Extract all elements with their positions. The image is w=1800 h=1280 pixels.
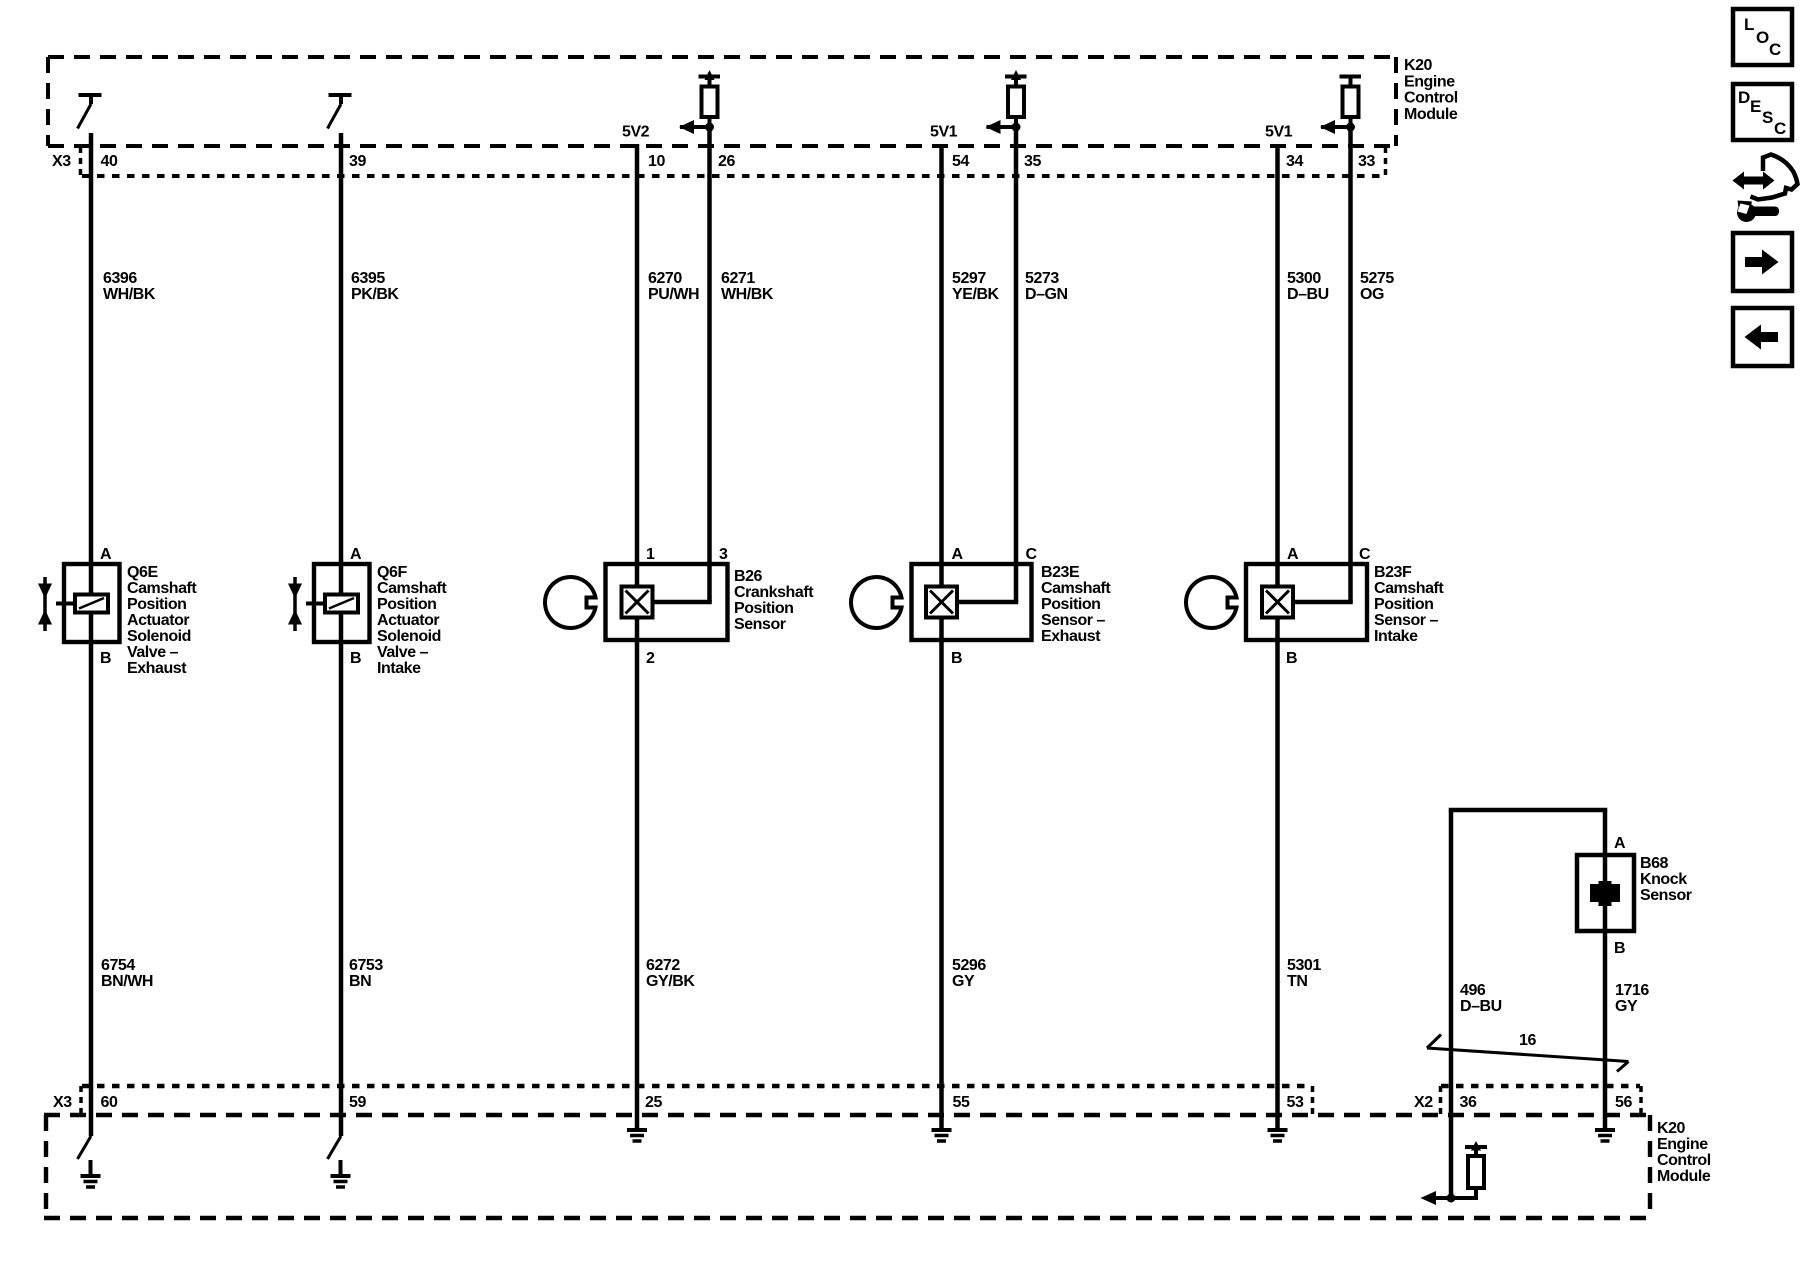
wire label 6754 BN/WH: [101, 957, 153, 990]
svg-text:34: 34: [1286, 153, 1303, 170]
wire 6271 WH/BK (pin 26 to B26 pin 3): [707, 129, 712, 602]
svg-text:S: S: [1762, 108, 1773, 127]
knock sensor B68 element: [1592, 883, 1618, 904]
svg-text:X3: X3: [52, 153, 71, 170]
svg-text:A: A: [1287, 546, 1299, 563]
svg-text:Position: Position: [377, 596, 437, 613]
svg-text:Actuator: Actuator: [127, 612, 189, 629]
svg-text:5V1: 5V1: [1265, 124, 1293, 141]
svg-text:5300: 5300: [1287, 270, 1321, 287]
svg-text:6754: 6754: [101, 957, 135, 974]
svg-text:Control: Control: [1657, 1152, 1711, 1169]
svg-text:3: 3: [719, 546, 728, 563]
svg-text:Camshaft: Camshaft: [1374, 580, 1444, 597]
svg-text:B: B: [951, 650, 962, 667]
X3 bottom separator left: [79, 1086, 83, 1115]
sensor B23F reluctor wheel: [1186, 577, 1237, 628]
svg-text:Knock: Knock: [1640, 871, 1687, 888]
svg-text:Camshaft: Camshaft: [377, 580, 447, 597]
sensor B23E box: [912, 564, 1032, 640]
label B68 Knock Sensor: [1640, 855, 1692, 904]
wire 5275 OG (pin 33 to B23F C): [1348, 129, 1353, 602]
wire label 6270 PU/WH: [648, 270, 699, 303]
icon back arrow box: [1733, 308, 1792, 366]
svg-text:Sensor –: Sensor –: [1041, 612, 1106, 629]
svg-text:BN: BN: [349, 973, 371, 990]
svg-text:C: C: [1359, 546, 1371, 563]
svg-text:Sensor –: Sensor –: [1374, 612, 1439, 629]
svg-text:60: 60: [101, 1094, 118, 1111]
wire label 5273 D-GN: [1025, 270, 1068, 303]
sensor B23F sense element: [1262, 587, 1293, 618]
svg-text:5296: 5296: [952, 957, 986, 974]
svg-text:53: 53: [1287, 1094, 1304, 1111]
wire label 6395 PK/BK: [351, 270, 399, 303]
wire 496 D-BU (to X2 pin 36): [1449, 810, 1454, 1198]
svg-text:BN/WH: BN/WH: [101, 973, 153, 990]
svg-text:54: 54: [952, 153, 969, 170]
svg-text:B: B: [100, 650, 111, 667]
svg-text:Intake: Intake: [1374, 628, 1418, 645]
X2 separator left: [1439, 1086, 1443, 1115]
sensor B23E sense element: [926, 587, 957, 618]
wire 5273 D-GN (pin 35 to B23E C): [1014, 129, 1019, 602]
wire label 6396 WH/BK: [103, 270, 156, 303]
wire 6395 PK/BK (circuit 39 to Q6F A): [339, 133, 344, 595]
wire label 6272 GY/BK: [646, 957, 695, 990]
X3 bottom separator right: [1311, 1086, 1315, 1115]
wire label 5296 GY: [952, 957, 986, 990]
wire label 5300 D-BU: [1287, 270, 1329, 303]
svg-text:B23F: B23F: [1374, 564, 1412, 581]
sensor B26 sense element: [622, 587, 653, 618]
wire 6270 PU/WH (5V2 pin 10 to B26 pin 1): [635, 144, 640, 587]
solenoid Q6F box: [295, 564, 370, 642]
arrow to circuit continuation (ECM internal): [1421, 1191, 1437, 1205]
sensor B26 box: [606, 564, 728, 640]
svg-text:K20: K20: [1404, 57, 1433, 74]
svg-text:6271: 6271: [721, 270, 755, 287]
svg-text:A: A: [350, 546, 362, 563]
svg-text:PK/BK: PK/BK: [351, 286, 399, 303]
wire 5300 D-BU (5V1 pin 34 to B23F A): [1275, 144, 1280, 587]
label B23E Camshaft Position Sensor - Exhaust: [1041, 564, 1111, 645]
icon hotlink (double arrow, outline, wrench): [1733, 155, 1798, 223]
icon DESC box: [1733, 84, 1792, 140]
label Q6E Camshaft Position Actuator Solenoid Valve - Exhaust: [127, 564, 197, 677]
wire B68 B to X2 pin 56: [1603, 906, 1608, 1128]
svg-text:39: 39: [349, 153, 366, 170]
svg-text:C: C: [1774, 119, 1786, 138]
wire B26 pin 2 to pin 25 (6272): [635, 618, 640, 1129]
svg-text:TN: TN: [1287, 973, 1307, 990]
svg-text:Module: Module: [1657, 1168, 1711, 1185]
svg-text:D: D: [1738, 88, 1750, 107]
svg-text:A: A: [952, 546, 964, 563]
svg-text:GY/BK: GY/BK: [646, 973, 695, 990]
wire label 1716 GY: [1615, 982, 1649, 1015]
X2 connector dotted line: [1441, 1084, 1640, 1088]
X3 top connector separator right: [1384, 147, 1388, 176]
svg-text:X2: X2: [1414, 1094, 1433, 1111]
svg-text:Exhaust: Exhaust: [1041, 628, 1101, 645]
svg-text:Valve –: Valve –: [127, 644, 179, 661]
label B26 Crankshaft Position Sensor: [734, 568, 814, 633]
wire jog inside B23E to sense element: [957, 600, 1018, 605]
svg-text:Valve –: Valve –: [377, 644, 429, 661]
wire Q6E B to pin 60 (6754): [89, 613, 94, 1137]
svg-text:6395: 6395: [351, 270, 385, 287]
svg-text:10: 10: [648, 153, 665, 170]
ECM driver switch pin 59: [328, 1136, 342, 1159]
svg-text:56: 56: [1615, 1094, 1632, 1111]
ground (ECM internal, pin 59): [331, 1160, 351, 1187]
svg-text:6753: 6753: [349, 957, 383, 974]
svg-text:Q6E: Q6E: [127, 564, 158, 581]
svg-text:B: B: [1286, 650, 1297, 667]
label B23F Camshaft Position Sensor - Intake: [1374, 564, 1444, 645]
svg-text:55: 55: [953, 1094, 970, 1111]
svg-text:Position: Position: [127, 596, 187, 613]
wire label 6753 BN: [349, 957, 383, 990]
svg-text:B68: B68: [1640, 855, 1669, 872]
svg-text:WH/BK: WH/BK: [103, 286, 156, 303]
wire label 5297 YE/BK: [952, 270, 1000, 303]
svg-text:GY: GY: [1615, 998, 1638, 1015]
wire label 6271 WH/BK: [721, 270, 774, 303]
svg-text:Exhaust: Exhaust: [127, 660, 187, 677]
sensor B26 reluctor wheel: [545, 577, 596, 628]
wire B23E B to pin 55 (5296): [939, 618, 944, 1129]
svg-text:D–BU: D–BU: [1287, 286, 1329, 303]
svg-text:Solenoid: Solenoid: [127, 628, 191, 645]
svg-text:496: 496: [1460, 982, 1486, 999]
sensor B23E reluctor wheel: [851, 577, 902, 628]
svg-text:6270: 6270: [648, 270, 682, 287]
ECM driver switch pin 60: [78, 1136, 92, 1159]
svg-text:Position: Position: [1374, 596, 1434, 613]
junction 496/resistor: [1447, 1194, 1456, 1203]
svg-text:B: B: [350, 650, 361, 667]
solenoid Q6E box: [45, 564, 120, 642]
svg-text:Actuator: Actuator: [377, 612, 439, 629]
svg-text:6272: 6272: [646, 957, 680, 974]
svg-text:B23E: B23E: [1041, 564, 1080, 581]
svg-text:GY: GY: [952, 973, 975, 990]
svg-text:5V1: 5V1: [930, 124, 958, 141]
svg-text:WH/BK: WH/BK: [721, 286, 774, 303]
solenoid Q6F valve linkage arrows: [293, 577, 297, 631]
svg-text:16: 16: [1519, 1032, 1536, 1049]
svg-text:B26: B26: [734, 568, 763, 585]
svg-text:E: E: [1750, 97, 1761, 116]
svg-text:B: B: [1614, 940, 1625, 957]
wire jog inside B23F to sense element: [1293, 600, 1353, 605]
X3 top connector separator left: [79, 147, 83, 176]
ECM driver switch pin 39: [328, 95, 352, 129]
svg-text:C: C: [1026, 546, 1038, 563]
svg-text:5273: 5273: [1025, 270, 1059, 287]
wire jog inside B26 to sense element: [652, 600, 712, 605]
svg-text:OG: OG: [1360, 286, 1384, 303]
svg-text:Engine: Engine: [1657, 1136, 1708, 1153]
svg-text:Position: Position: [734, 600, 794, 617]
wire label 5301 TN: [1287, 957, 1321, 990]
svg-text:D–BU: D–BU: [1460, 998, 1502, 1015]
svg-text:5275: 5275: [1360, 270, 1394, 287]
ground (ECM internal, pin 60): [81, 1160, 101, 1187]
ground (ECM internal, pin 55): [932, 1130, 952, 1141]
svg-text:A: A: [100, 546, 112, 563]
X2 separator right: [1639, 1086, 1643, 1115]
label Q6F Camshaft Position Actuator Solenoid Valve - Intake: [377, 564, 447, 677]
svg-text:25: 25: [645, 1094, 662, 1111]
ground (ECM internal, pin 56): [1595, 1130, 1615, 1141]
svg-text:5V2: 5V2: [622, 124, 650, 141]
svg-text:Sensor: Sensor: [1640, 887, 1692, 904]
wire 6396 WH/BK (circuit 40 to Q6E A): [89, 133, 94, 595]
svg-text:5297: 5297: [952, 270, 986, 287]
svg-text:33: 33: [1358, 153, 1375, 170]
solenoid Q6E coil: [75, 595, 108, 613]
svg-text:2: 2: [646, 650, 655, 667]
solenoid Q6F coil: [325, 595, 358, 613]
svg-text:5301: 5301: [1287, 957, 1321, 974]
wire top run 496/1716 junction to knock sensor: [1449, 808, 1608, 813]
knock sensor B68 box: [1577, 855, 1634, 931]
svg-text:Crankshaft: Crankshaft: [734, 584, 814, 601]
svg-text:59: 59: [349, 1094, 366, 1111]
ground (ECM internal, pin 53): [1268, 1130, 1288, 1141]
svg-text:6396: 6396: [103, 270, 137, 287]
svg-text:Control: Control: [1404, 90, 1458, 107]
twisted pair marker 16: [1427, 1035, 1629, 1072]
svg-text:Module: Module: [1404, 106, 1458, 123]
X3 top connector dotted line: [82, 174, 1382, 178]
svg-text:Sensor: Sensor: [734, 616, 786, 633]
wire label 496 D-BU: [1460, 982, 1502, 1015]
svg-text:1716: 1716: [1615, 982, 1649, 999]
svg-text:Engine: Engine: [1404, 73, 1455, 90]
ECM top dashed box K20: [48, 57, 1396, 146]
ECM bottom dashed box K20: [44, 1115, 1650, 1218]
sensor B23F box: [1246, 564, 1367, 640]
ECM pull-up resistor (knock circuit): [1435, 1147, 1487, 1198]
svg-text:C: C: [1769, 40, 1781, 59]
svg-text:Position: Position: [1041, 596, 1101, 613]
ground (ECM internal, pin 25): [627, 1130, 647, 1141]
svg-text:36: 36: [1460, 1094, 1477, 1111]
ECM pull-up resistor pin 33: [1321, 77, 1361, 130]
svg-text:A: A: [1614, 835, 1626, 852]
wire B23F B to pin 53 (5301): [1275, 618, 1280, 1129]
K20 Engine Control Module label bottom: [1657, 1120, 1711, 1185]
svg-text:X3: X3: [53, 1094, 72, 1111]
svg-text:PU/WH: PU/WH: [648, 286, 699, 303]
ECM pull-up resistor pin 26: [680, 77, 720, 130]
svg-text:1: 1: [646, 546, 655, 563]
svg-text:26: 26: [718, 153, 735, 170]
svg-text:Intake: Intake: [377, 660, 421, 677]
wire 1716 GY (B68 A lead): [1603, 810, 1608, 882]
svg-text:Q6F: Q6F: [377, 564, 407, 581]
svg-text:O: O: [1756, 28, 1769, 47]
solenoid Q6E valve linkage arrows: [43, 577, 47, 631]
svg-text:D–GN: D–GN: [1025, 286, 1068, 303]
svg-text:40: 40: [101, 153, 118, 170]
svg-text:YE/BK: YE/BK: [952, 286, 1000, 303]
svg-text:L: L: [1744, 15, 1754, 34]
wire 5297 YE/BK (5V1 pin 54 to B23E A): [939, 144, 944, 587]
X3 bottom connector dotted line: [82, 1084, 1312, 1088]
svg-text:35: 35: [1024, 153, 1041, 170]
svg-text:Camshaft: Camshaft: [127, 580, 197, 597]
svg-text:Camshaft: Camshaft: [1041, 580, 1111, 597]
ECM driver switch pin 40: [78, 95, 102, 129]
wire label 5275 OG: [1360, 270, 1394, 303]
ECM pull-up resistor pin 35: [987, 77, 1027, 130]
svg-text:Solenoid: Solenoid: [377, 628, 441, 645]
wire Q6F B to pin 59 (6753): [339, 613, 344, 1137]
svg-text:K20: K20: [1657, 1120, 1686, 1137]
icon forward arrow box: [1733, 233, 1792, 291]
icon LOC box: [1733, 9, 1792, 65]
